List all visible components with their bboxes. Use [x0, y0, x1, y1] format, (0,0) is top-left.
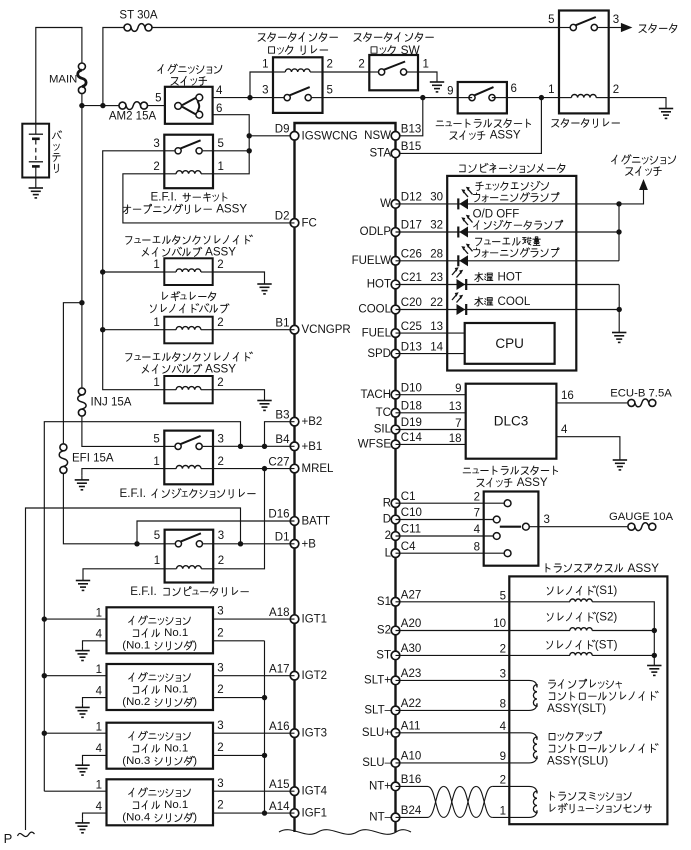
label スタータリレー — [552, 118, 620, 127]
label E.F.I. コンピュータリレー — [130, 585, 248, 598]
wire TC to DLC3 — [396, 412, 466, 414]
relay computer - contact — [175, 533, 202, 547]
label フューエル残量 ウォーニングランプ — [476, 237, 541, 246]
svg-text:2: 2 — [217, 742, 223, 754]
wire coil No.4 pin 1 from feed line — [44, 790, 106, 792]
ignition switch contact triangle — [175, 94, 203, 118]
terminal B24 NT– (ECU right) — [369, 805, 422, 824]
svg-text:B16: B16 — [401, 774, 421, 786]
node MAIN-AM2 junction — [79, 103, 84, 108]
svg-text:S1: S1 — [377, 596, 391, 608]
wire starter relay pin2 to ground — [609, 98, 666, 103]
switch starter interlock SW - box — [369, 55, 418, 90]
svg-text:A23: A23 — [401, 668, 421, 680]
svg-text:2: 2 — [217, 684, 223, 696]
svg-text:HOT: HOT — [498, 271, 522, 284]
ground S1 S2 ST solenoids — [647, 661, 661, 675]
svg-text:A15: A15 — [269, 779, 289, 791]
relay E.F.I. circuit opening - contact — [175, 140, 202, 154]
ignition coil No.2 - box — [107, 664, 214, 710]
svg-text:2: 2 — [218, 456, 224, 468]
node EFI branch — [79, 300, 84, 305]
svg-text:5: 5 — [153, 434, 159, 446]
wire coil No.2 pin 2 to IGF bus — [213, 697, 265, 699]
relay injection - coil — [176, 466, 201, 469]
ground DLC3 — [613, 456, 627, 470]
wire D to switch — [396, 519, 494, 521]
terminal C11 2 (ECU right) — [385, 524, 421, 543]
wire ST fuse to starter relay pin 5 — [153, 27, 560, 29]
svg-text:HOT: HOT — [367, 279, 391, 291]
svg-text:9: 9 — [455, 383, 461, 395]
svg-text:5: 5 — [155, 93, 161, 105]
twisted pair NT+ NT- — [428, 786, 493, 817]
ground coil No.1 — [75, 647, 89, 661]
label イグニッション スイッチ title — [158, 64, 222, 73]
terminal C27 MREL (ECU left) — [268, 456, 334, 475]
solenoid fuel tank main valve 1 - box — [164, 258, 212, 285]
ground solenoid 2 — [257, 396, 271, 410]
svg-text:B15: B15 — [401, 141, 421, 153]
svg-text:C26: C26 — [401, 249, 422, 261]
svg-text:1: 1 — [153, 377, 159, 389]
wire AM2 node to AM2 fuse — [103, 105, 119, 107]
terminal D1 +B (ECU left) — [275, 532, 316, 551]
svg-text:1: 1 — [153, 317, 159, 329]
svg-text:COOL: COOL — [498, 295, 531, 308]
svg-text:2: 2 — [218, 555, 224, 567]
terminal A16 IGT3 (ECU left) — [269, 721, 327, 740]
ground coil No.3 — [75, 761, 89, 775]
svg-text:3: 3 — [613, 14, 619, 26]
wire INJ fuse to injection relay pin 5 — [82, 417, 164, 447]
wire 2 to switch — [396, 535, 494, 537]
svg-text:+B: +B — [302, 538, 317, 550]
terminal C25 FUEL (ECU right) — [362, 321, 422, 340]
terminal D18 TC (ECU right) — [376, 401, 422, 420]
wire node to ECU terminal B15 STA — [396, 98, 542, 154]
solenoid fuel tank main valve 2 - box — [164, 376, 212, 403]
fuse ST 30A — [124, 24, 152, 32]
svg-text:D19: D19 — [401, 417, 422, 429]
sensor transmission revolution coil — [509, 786, 537, 817]
svg-text:WFSE: WFSE — [358, 439, 392, 451]
wire coil No.3 pin 4 to ground — [83, 755, 107, 761]
svg-text:A22: A22 — [401, 698, 421, 710]
solenoid 1 coil — [176, 269, 201, 272]
svg-text:DLC3: DLC3 — [494, 414, 529, 429]
node MREL riser — [262, 466, 267, 471]
label スタータインター ロック リレー — [258, 33, 337, 42]
svg-text:(No.3: (No.3 — [122, 755, 150, 767]
terminal B4 +B1 (ECU left) — [275, 434, 322, 453]
relay computer - coil — [177, 566, 202, 569]
wire coil No.4 pin 2 to IGF bus — [213, 812, 265, 814]
solenoid SLT (line pressure control) coil — [509, 680, 537, 710]
combination meter box — [447, 176, 576, 371]
svg-text:1: 1 — [153, 456, 159, 468]
svg-text:ST 30A: ST 30A — [119, 9, 157, 21]
node S2 ground junction — [652, 628, 657, 633]
terminal C26 FUELW (ECU right) — [352, 249, 422, 268]
svg-text:D13: D13 — [401, 341, 422, 353]
terminal D19 SIL (ECU right) — [374, 417, 422, 436]
svg-text:C10: C10 — [401, 507, 422, 519]
terminal A14 IGF1 (ECU left) — [269, 801, 327, 820]
svg-text:NT–: NT– — [369, 812, 391, 824]
fuse AM2 15A — [119, 102, 148, 110]
wire computer relay pin 1 to ground — [83, 569, 165, 576]
svg-text:2: 2 — [613, 84, 619, 96]
switch neutral start - contact — [469, 87, 495, 101]
svg-text:5: 5 — [218, 138, 224, 150]
wire MAIN to AM2 node — [81, 94, 83, 106]
svg-text:2: 2 — [217, 259, 223, 271]
svg-text:B1: B1 — [275, 317, 289, 329]
terminal D12 W (ECU right) — [380, 192, 422, 211]
node D9 branch — [247, 133, 252, 138]
label ニュートラルスタート スイッチ ASSY (2) — [463, 466, 557, 475]
ignition coil No.4 - box — [107, 779, 214, 825]
svg-text:A11: A11 — [401, 721, 421, 733]
wire feed to solenoid 2 pin 1 — [103, 329, 165, 331]
label イグニッションコイル No.1 (No.3 シリンダ) — [129, 731, 191, 740]
wire coil No.3 pin 1 from feed line — [44, 732, 106, 734]
wire ignition pin 4 to interlock relay pin 3 — [213, 97, 273, 99]
svg-text:IGF1: IGF1 — [302, 808, 328, 820]
terminal A18 IGT1 (ECU left) — [269, 607, 327, 626]
terminal C21 HOT (ECU right) — [367, 272, 422, 291]
LED check engine warning lamp — [458, 187, 472, 210]
arrow to starter — [621, 23, 633, 32]
svg-text:2: 2 — [358, 59, 364, 71]
wire starter relay pin3 to starter arrow — [609, 27, 621, 29]
svg-text:SLT–: SLT– — [364, 705, 391, 717]
wire MAIN node down to INJ fuse — [81, 106, 83, 388]
svg-text:4: 4 — [216, 85, 223, 97]
wire HOT to water temp hot lamp — [396, 284, 620, 286]
svg-text:ASSY: ASSY — [628, 561, 660, 575]
terminal B13 NSW (ECU right) — [364, 124, 421, 143]
terminal A17 IGT2 (ECU left) — [269, 663, 327, 682]
svg-text:A27: A27 — [401, 590, 421, 602]
wire DLC3 pin16 to ECU-B fuse — [556, 402, 627, 404]
label battery バッテリ (vertical) — [52, 131, 61, 173]
svg-text:ASSY(SLU): ASSY(SLU) — [547, 755, 608, 768]
wire S1 to solenoid — [396, 601, 571, 603]
terminal D16 BATT (ECU left) — [268, 509, 330, 528]
wire B3 +B2 branch — [265, 422, 295, 447]
svg-text:3: 3 — [217, 778, 223, 790]
arrow to ignition switch — [639, 179, 648, 190]
svg-text:+B1: +B1 — [302, 441, 323, 453]
svg-text:ASSY: ASSY — [205, 363, 236, 376]
solenoid regulator valve - box — [164, 317, 212, 344]
svg-text:A14: A14 — [269, 801, 290, 813]
svg-text:13: 13 — [449, 401, 462, 413]
svg-text:D9: D9 — [275, 124, 290, 136]
solenoid 2 coil — [176, 387, 201, 390]
node B13 branch — [420, 95, 425, 100]
svg-text:VCNGPR: VCNGPR — [302, 324, 351, 336]
wire neutral start pin6 to starter relay pin1 — [507, 97, 559, 99]
CPU box — [465, 323, 555, 364]
svg-text:AM2 15A: AM2 15A — [109, 111, 157, 123]
node ignition pin4 / interlock coil — [247, 95, 252, 100]
svg-text:O/D OFF: O/D OFF — [473, 209, 520, 221]
shift switch contacts R D 2 L — [493, 500, 511, 557]
wire battery positive to MAIN link — [36, 28, 82, 124]
svg-text:1: 1 — [154, 555, 160, 567]
svg-text:32: 32 — [430, 220, 443, 232]
wire ST to solenoid — [396, 654, 571, 656]
terminal B16 NT+ (ECU right) — [369, 774, 421, 793]
svg-text:): ) — [193, 755, 197, 767]
svg-text:9: 9 — [500, 751, 506, 763]
svg-text:2: 2 — [217, 377, 223, 389]
node feed coil No.1 — [42, 616, 47, 621]
svg-text:2: 2 — [500, 643, 506, 655]
wire interlock relay pin5 to neutral start switch pin 9 — [323, 97, 458, 99]
svg-text:10: 10 — [493, 618, 506, 630]
wire injection relay pin 3 to ECU B4 +B1 — [213, 445, 295, 447]
svg-text:A16: A16 — [269, 721, 289, 733]
relay starter - box — [559, 11, 609, 114]
wire FUEL to CPU — [396, 332, 465, 334]
svg-text:C4: C4 — [401, 541, 416, 553]
wire injection relay pin 1 to ground — [82, 469, 164, 476]
wire S2 to solenoid — [396, 630, 571, 632]
wire FUELW to fuel level lamp — [396, 260, 620, 262]
wire regulator solenoid pin 2 to ECU B1 VCNGPR — [213, 329, 295, 331]
svg-text:C11: C11 — [401, 524, 421, 536]
wire WFSE to DLC3 — [396, 443, 466, 445]
svg-text:FUELW: FUELW — [352, 255, 392, 267]
label 水温 HOT — [475, 271, 522, 284]
svg-text:4: 4 — [561, 424, 568, 436]
svg-text:9: 9 — [447, 86, 453, 98]
label フューエルタンクソレノイド メインバルブ ASSY (2) — [126, 352, 253, 361]
svg-text:SW: SW — [401, 43, 421, 57]
fuse ECU-B 7.5A — [628, 399, 656, 407]
terminal A20 S2 (ECU right) — [377, 618, 421, 637]
svg-text:3: 3 — [217, 662, 223, 674]
svg-text:C25: C25 — [401, 321, 422, 333]
wire SLT- to SLT solenoid — [396, 709, 510, 711]
svg-text:MREL: MREL — [302, 463, 335, 475]
svg-text:B4: B4 — [275, 434, 290, 446]
node D16 riser on +B row — [134, 541, 139, 546]
svg-text:4: 4 — [96, 685, 103, 697]
svg-text:1: 1 — [262, 58, 268, 70]
svg-text:D18: D18 — [401, 401, 422, 413]
svg-text:D: D — [383, 514, 391, 526]
terminal D2 FC (ECU left) — [275, 211, 317, 230]
terminal C10 D (ECU right) — [383, 507, 422, 526]
svg-text:(ST): (ST) — [595, 638, 618, 651]
wire SIL to DLC3 — [396, 429, 466, 431]
svg-text:C1: C1 — [401, 491, 416, 503]
svg-text:14: 14 — [430, 342, 443, 354]
wire node to ECU terminal D9 — [249, 135, 294, 137]
terminal D10 TACH (ECU right) — [361, 382, 422, 401]
svg-text:FC: FC — [302, 217, 317, 229]
switch neutral start (ST position) - box — [458, 82, 507, 113]
svg-text:3: 3 — [500, 669, 506, 681]
wire SPD to CPU — [396, 353, 465, 355]
wire coil No.3 pin 3 to ECU A16 — [213, 732, 295, 734]
svg-text:GAUGE 10A: GAUGE 10A — [609, 511, 674, 523]
terminal C4 L (ECU right) — [385, 541, 417, 560]
wire solenoid 2 pin 2 to ground — [213, 390, 265, 396]
svg-text:3: 3 — [217, 720, 223, 732]
svg-text:STA: STA — [369, 148, 391, 160]
svg-text:MAIN: MAIN — [49, 74, 77, 86]
wire coil No.2 pin 1 from feed line — [44, 675, 106, 677]
wire ODLP to O/D OFF lamp — [396, 231, 620, 233]
svg-text:1: 1 — [96, 664, 102, 676]
node IGF bus coil No.3 — [262, 753, 267, 758]
svg-text:7: 7 — [474, 508, 480, 520]
svg-text:IGSWCNG: IGSWCNG — [302, 130, 358, 142]
node STA branch — [539, 95, 544, 100]
label イグニッション スイッチ (top right) — [612, 155, 676, 164]
wire feed to solenoid 1 pin 1 — [103, 271, 165, 273]
svg-text:TC: TC — [376, 407, 391, 419]
svg-text:W: W — [380, 198, 391, 210]
LED water temp HOT lamp — [452, 267, 466, 290]
label チェックエンジン ウォーニングランプ — [476, 181, 549, 190]
label ラインプレッシャ コントロールソレノイド ASSY (SLT) — [549, 679, 622, 688]
svg-text:): ) — [193, 640, 197, 652]
svg-text:ASSY: ASSY — [490, 129, 521, 142]
wire ignition coil feed: B4 row to left feed line — [44, 422, 240, 792]
svg-text:8: 8 — [474, 541, 480, 553]
svg-text:4: 4 — [96, 801, 103, 813]
wire coil No.1 pin 1 from feed line — [44, 618, 106, 620]
svg-text:22: 22 — [430, 297, 443, 309]
svg-text:A30: A30 — [401, 643, 421, 655]
wire node to ECU terminal B13 NSW — [396, 98, 423, 136]
wire opening relay pin 3 to solenoid feed line — [103, 151, 165, 390]
svg-text:A20: A20 — [401, 618, 421, 630]
relay E.F.I. circuit opening - box — [164, 135, 213, 189]
svg-text:BATT: BATT — [302, 516, 331, 528]
fuse EFI 15A — [59, 444, 67, 474]
wire IGF common bus riser — [264, 641, 266, 813]
wire coil No.1 pin 4 to ground — [83, 641, 107, 647]
wire D16 BATT branch — [137, 521, 295, 544]
wire W to check engine lamp and ignition switch arrow — [396, 203, 620, 205]
svg-text:S2: S2 — [377, 625, 391, 637]
solenoid ST coil — [570, 653, 592, 656]
ground computer relay — [76, 576, 90, 590]
svg-text:30: 30 — [430, 192, 443, 204]
fuse INJ 15A — [78, 388, 86, 416]
svg-text:6: 6 — [511, 83, 517, 95]
svg-text:2: 2 — [217, 317, 223, 329]
svg-text:3: 3 — [218, 434, 224, 446]
svg-text:No.1: No.1 — [164, 684, 188, 696]
node IGF bus coil No.2 — [262, 695, 267, 700]
svg-text:1: 1 — [218, 161, 224, 173]
terminal A10 SLU– (ECU right) — [362, 751, 421, 770]
wire ignition pin 6 to D9 riser — [213, 115, 250, 174]
wire twisted pair to revolution sensor — [492, 785, 509, 787]
wire node to opening relay pin 5 — [213, 150, 249, 152]
svg-text:A18: A18 — [269, 607, 289, 619]
svg-text:D16: D16 — [268, 509, 289, 521]
ground injection relay — [75, 475, 89, 489]
svg-text:2: 2 — [217, 800, 223, 812]
svg-text:5: 5 — [548, 14, 554, 26]
wire EFI branch to EFI fuse — [63, 303, 82, 444]
wire coil No.1 pin 2 to IGF bus — [213, 640, 265, 642]
ground solenoid 1 — [257, 280, 271, 294]
svg-text:): ) — [193, 696, 197, 708]
wire coil No.2 pin 3 to ECU A17 — [213, 675, 295, 677]
svg-text:ST: ST — [376, 650, 391, 662]
svg-text:1: 1 — [548, 84, 554, 96]
svg-text:A10: A10 — [401, 751, 421, 763]
ignition switch box — [165, 87, 213, 124]
node solenoid 2 feed — [100, 327, 105, 332]
wire R to switch — [396, 502, 505, 504]
ground water temp lamps — [612, 327, 626, 342]
svg-text:3: 3 — [262, 85, 268, 97]
svg-text:2: 2 — [385, 530, 391, 542]
switch neutral start shift-position box — [484, 492, 539, 566]
svg-text:(S2): (S2) — [595, 611, 617, 624]
svg-text:13: 13 — [430, 321, 443, 333]
svg-text:No.1: No.1 — [164, 799, 188, 811]
label イグニッションコイル No.1 (No.4 シリンダ) — [129, 788, 191, 797]
wire EFI fuse to computer relay pin 5 — [63, 474, 164, 544]
terminal A27 S1 (ECU right) — [377, 590, 421, 609]
shift switch wiper — [500, 523, 530, 530]
svg-text:SLT+: SLT+ — [364, 675, 391, 687]
battery — [22, 124, 49, 178]
wire coil No.3 pin 2 to IGF bus — [213, 754, 265, 756]
wire D1 row to P line (page link) — [26, 508, 241, 830]
label イグニッションコイル No.1 (No.1 シリンダ) — [129, 616, 191, 625]
svg-text:(No.1: (No.1 — [122, 640, 150, 652]
wire COOL to water temp cool lamp — [396, 309, 620, 311]
svg-text:ODLP: ODLP — [360, 226, 392, 238]
label イグニッションコイル No.1 (No.2 シリンダ) — [129, 673, 191, 682]
svg-text:2: 2 — [327, 58, 333, 70]
ground coil No.2 — [75, 703, 89, 717]
LED fuel level warning lamp — [458, 244, 472, 267]
transaxle assy box — [509, 576, 667, 824]
terminal D17 ODLP (ECU right) — [360, 220, 422, 239]
svg-text:R: R — [383, 497, 391, 509]
node solenoid 1 feed — [100, 269, 105, 274]
label ニュートラルスタート スイッチ ASSY — [436, 119, 530, 128]
terminal A11 SLU+ (ECU right) — [362, 721, 421, 740]
label E.F.I. サーキット オープニングリレー ASSY — [151, 191, 227, 204]
wire ST branch riser to ST fuse row — [103, 28, 124, 106]
wire DLC3 pin4 to ground — [556, 437, 620, 456]
svg-text:A17: A17 — [269, 663, 289, 675]
svg-text:NT+: NT+ — [369, 781, 391, 793]
terminal B3 +B2 (ECU left) — [275, 409, 322, 428]
terminal D13 SPD (ECU right) — [367, 341, 422, 360]
wire solenoid 1 pin 2 to ground — [213, 272, 265, 280]
svg-text:2: 2 — [474, 491, 480, 503]
wire NT+ to twisted pair — [396, 785, 428, 787]
svg-text:FUEL: FUEL — [362, 327, 392, 339]
